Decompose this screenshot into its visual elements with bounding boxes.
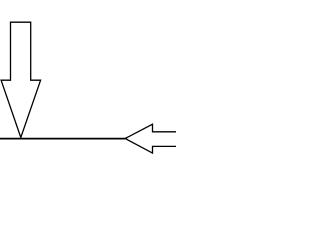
left block arrow (outline, shaft runs off right edge) (125, 124, 179, 153)
wire: horizontal baseline (0, 138, 125, 140)
down block arrow (outline) (1, 22, 41, 137)
